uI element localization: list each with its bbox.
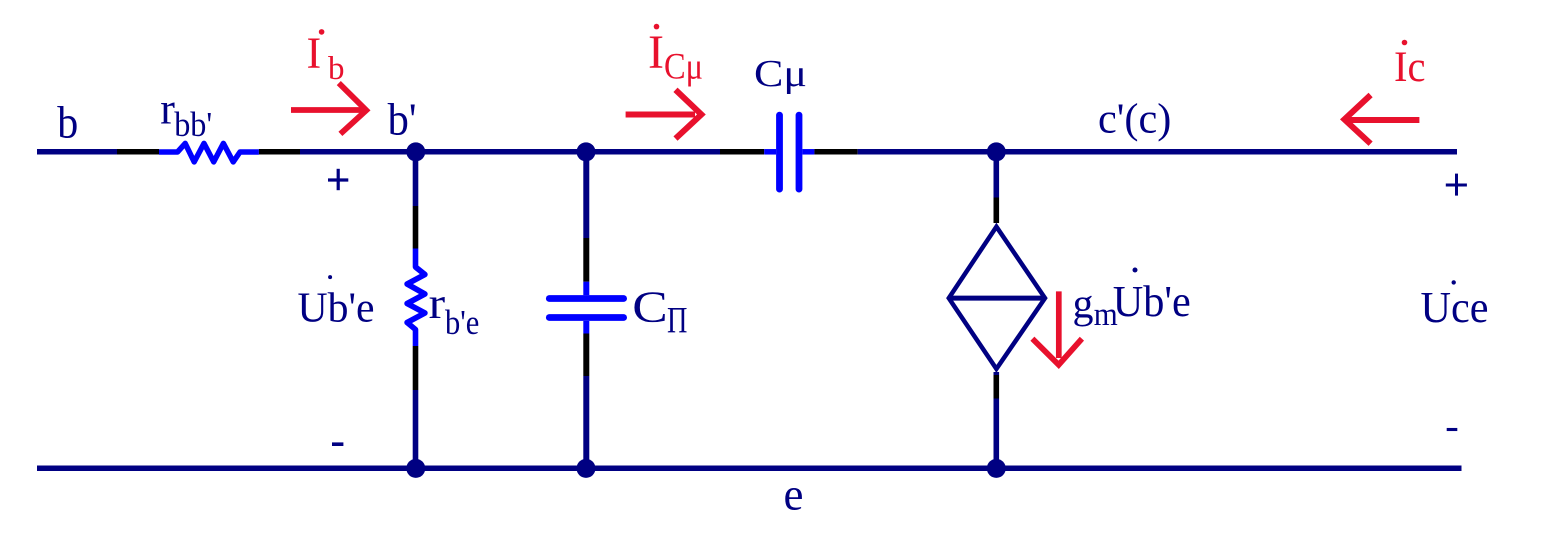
current arrow Ib bbox=[291, 83, 366, 134]
svg-text:e: e bbox=[784, 470, 804, 520]
node Cpi-top junction dot bbox=[577, 142, 596, 161]
wire black lead above capacitor Cpi bbox=[583, 238, 589, 282]
label voltage Ub'e overdot bbox=[328, 275, 332, 279]
svg-text:r: r bbox=[429, 279, 446, 328]
svg-text:I: I bbox=[648, 26, 664, 79]
label voltage Uce overdot bbox=[1452, 280, 1456, 284]
svg-text:Ub'e: Ub'e bbox=[298, 285, 375, 331]
svg-text:b': b' bbox=[388, 94, 417, 145]
svg-text:Cμ: Cμ bbox=[754, 53, 807, 95]
current arrow ICmu bbox=[626, 90, 702, 139]
svg-text:b: b bbox=[328, 51, 345, 87]
wire branch source bottom (navy) bbox=[993, 372, 999, 468]
svg-text:I: I bbox=[307, 29, 322, 78]
node e1 junction dot bbox=[406, 459, 425, 478]
label minus polarity Uce bbox=[1447, 428, 1458, 431]
label source voltage overdot bbox=[1133, 268, 1138, 273]
svg-text:r: r bbox=[160, 85, 175, 134]
current arrow Ic (pointing left) bbox=[1344, 95, 1419, 144]
capacitor Cmu left plate bbox=[776, 115, 783, 189]
capacitor Cpi top plate bbox=[549, 295, 623, 302]
wire black lead left of resistor rbb' bbox=[117, 149, 159, 155]
wire bottom rail e (navy) bbox=[37, 465, 1462, 471]
label current ICmu overdot bbox=[654, 24, 660, 30]
wire Cmu to node c' and right edge (navy) bbox=[858, 149, 1457, 155]
capacitor Cpi top lead (blue) bbox=[583, 282, 589, 296]
svg-text:c'(c): c'(c) bbox=[1098, 95, 1171, 142]
wire top-left from b terminal (navy) bbox=[37, 149, 117, 155]
label minus polarity Ub'e bbox=[332, 442, 343, 446]
svg-text:b: b bbox=[57, 98, 78, 148]
wire black lead above resistor rb'e bbox=[413, 206, 419, 249]
wire black lead left of capacitor Cmu bbox=[720, 149, 764, 155]
capacitor Cmu left lead (blue) bbox=[764, 149, 776, 155]
wire branch Cpi top (navy) bbox=[583, 152, 589, 238]
dependent current source U1 diamond bbox=[949, 227, 1045, 369]
capacitor Cpi bottom lead (blue) bbox=[583, 321, 589, 334]
wire branch rb'e top (navy) bbox=[413, 152, 419, 206]
wire branch Cpi bottom (navy) bbox=[583, 376, 589, 468]
label plus polarity Ub'e bbox=[328, 169, 348, 190]
node e2 junction dot bbox=[577, 459, 596, 478]
node e3 junction dot bbox=[987, 459, 1006, 478]
svg-text:C: C bbox=[632, 282, 668, 331]
wire black lead right of capacitor Cmu bbox=[814, 149, 857, 155]
capacitor Cmu right lead (blue) bbox=[803, 149, 815, 155]
wire black lead right of resistor rbb' bbox=[259, 149, 300, 155]
node c' junction dot bbox=[987, 142, 1006, 161]
svg-text:Π: Π bbox=[667, 301, 687, 342]
svg-text:Uce: Uce bbox=[1421, 283, 1489, 332]
wire black lead below capacitor Cpi bbox=[583, 334, 589, 377]
wire node b' to Cmu (navy) bbox=[300, 149, 720, 155]
svg-text:Cμ: Cμ bbox=[664, 47, 703, 88]
resistor R1 rbb' (blue zigzag) bbox=[159, 143, 259, 162]
current arrow gm source (pointing down) bbox=[1032, 291, 1082, 364]
label current Ic overdot bbox=[1402, 40, 1408, 46]
label current Ib overdot bbox=[319, 29, 325, 35]
capacitor Cpi bottom plate bbox=[549, 314, 623, 321]
svg-text:b'e: b'e bbox=[445, 304, 479, 342]
svg-text:Ub'e: Ub'e bbox=[1113, 277, 1191, 326]
capacitor Cmu right plate bbox=[796, 115, 803, 189]
wire branch source top (navy) bbox=[993, 152, 999, 198]
wire black lead above source diamond bbox=[993, 198, 999, 224]
wire black lead below resistor rb'e bbox=[413, 346, 419, 390]
wire black lead below source diamond bbox=[993, 375, 999, 399]
resistor R2 rb'e (blue zigzag) bbox=[407, 249, 425, 347]
wire branch rb'e bottom (navy) bbox=[413, 390, 419, 468]
svg-text:Ic: Ic bbox=[1394, 44, 1426, 91]
label plus polarity Uce bbox=[1446, 174, 1467, 196]
dependent source diamond midline bbox=[949, 296, 1045, 301]
svg-text:g: g bbox=[1073, 282, 1094, 328]
node b' junction dot bbox=[406, 142, 425, 161]
svg-text:bb': bb' bbox=[174, 105, 212, 144]
